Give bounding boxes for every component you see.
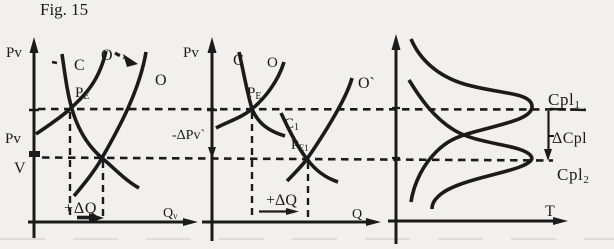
svg-text:Fig. 15: Fig. 15 <box>40 0 88 19</box>
y-axis left panel <box>30 37 39 238</box>
svg-text:C: C <box>74 57 85 74</box>
demand curve C (middle) <box>239 52 285 136</box>
demand curve C1 (middle) <box>281 113 338 182</box>
down arrowhead on middle axis at lower price <box>208 147 216 159</box>
dashed shift arrow <box>115 53 138 67</box>
svg-text:Pv: Pv <box>183 45 199 61</box>
upper distribution curve <box>411 39 532 202</box>
svg-text:-ΔPv`: -ΔPv` <box>172 128 205 143</box>
thick tick at V level <box>29 151 40 157</box>
lower distribution curve <box>409 80 532 209</box>
supply curve O` (middle) <box>287 78 352 181</box>
y-axis right panel <box>392 34 401 244</box>
dashed vertical from PE1 (middle) <box>307 162 309 220</box>
tick at Pv level <box>29 109 39 112</box>
svg-text:+ΔQ: +ΔQ <box>266 192 297 209</box>
upper dashed price line across panels <box>38 108 585 111</box>
supply curve O (left, original) <box>36 51 106 134</box>
dashed vertical from second equilibrium (left) <box>102 161 104 220</box>
x-axis middle panel <box>202 218 381 226</box>
svg-text:O: O <box>101 47 113 64</box>
svg-text:Pv: Pv <box>5 131 21 147</box>
svg-text:O: O <box>267 55 278 71</box>
ΔCpl arrow <box>544 111 554 161</box>
dashed vertical from PE (left) <box>69 112 71 220</box>
tick lower on right axis <box>392 157 400 159</box>
dashed line segment under Cpl1 <box>550 109 586 110</box>
demand curve C (left) <box>62 54 139 188</box>
svg-text:O`: O` <box>358 75 375 92</box>
svg-text:O: O <box>155 72 167 89</box>
arrow under +ΔQ (middle) <box>259 208 299 215</box>
svg-text:C: C <box>233 52 244 69</box>
tick at PE level (middle axis) <box>207 109 217 112</box>
supply curve O (middle) <box>216 62 284 128</box>
x-axis left panel <box>28 218 198 226</box>
x-axis right panel <box>388 217 568 225</box>
y-axis middle panel <box>208 37 217 241</box>
supply curve O shifted (left) <box>74 52 146 196</box>
svg-text:T: T <box>545 203 555 220</box>
lower dashed price line across panels <box>42 158 553 161</box>
dashed vertical from PE (middle) <box>251 112 253 220</box>
scan streak artifact <box>0 238 614 240</box>
svg-text:Pv: Pv <box>6 45 22 61</box>
small arrow under +ΔQ (left) <box>77 213 104 223</box>
small stray dash left of C <box>52 62 57 63</box>
tick upper on right axis <box>392 107 400 109</box>
svg-text:ΔCpl: ΔCpl <box>552 130 587 147</box>
svg-text:V: V <box>14 160 26 177</box>
svg-text:Q: Q <box>352 207 362 222</box>
